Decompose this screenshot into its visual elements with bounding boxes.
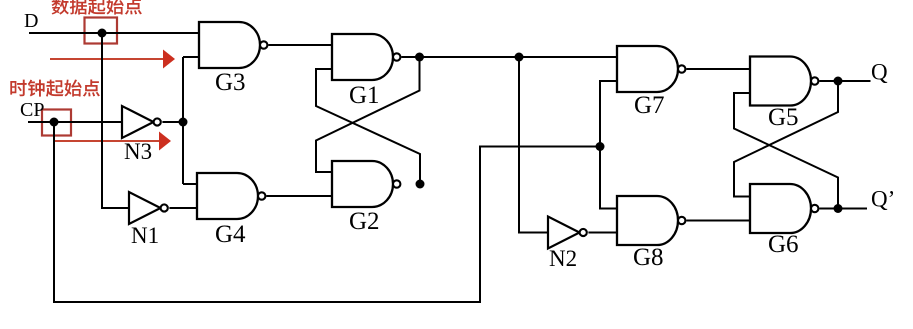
- wire CP net vertical to G7 and G8 inputs: [600, 81, 617, 209]
- wire cross-couple G1 out to G2 upper input: [316, 57, 420, 172]
- nand gate G5: [750, 57, 818, 106]
- junction N3 output node: [179, 118, 188, 127]
- svg-text:G1: G1: [349, 82, 380, 109]
- wire stub to G4 upper input: [183, 183, 197, 185]
- svg-text:G6: G6: [768, 231, 799, 258]
- svg-text:N1: N1: [131, 223, 159, 248]
- wire G1 output to G7 (S net): [401, 56, 617, 58]
- wire G3 output to G1 upper input: [268, 44, 332, 46]
- wire CP input line: [28, 121, 122, 123]
- svg-text:CP: CP: [20, 99, 44, 121]
- wire D junction down to N1 input: [102, 33, 129, 208]
- wire N3 output to junction: [162, 121, 183, 123]
- junction on CP line: [50, 118, 59, 127]
- svg-text:G2: G2: [349, 208, 380, 235]
- svg-text:G7: G7: [634, 92, 665, 119]
- svg-text:G3: G3: [215, 69, 246, 96]
- wire N1 output to G4 lower input: [169, 207, 197, 209]
- junction S-wire tap node: [515, 53, 524, 62]
- inverter N2: [548, 217, 587, 249]
- red annotation text: clock start point: [10, 80, 100, 97]
- wire cross-couple Q to G6 upper input: [734, 81, 838, 197]
- junction G2 output node: [416, 180, 425, 189]
- nand gate G4: [197, 173, 265, 219]
- junction CP net node: [596, 142, 605, 151]
- svg-text:Q’: Q’: [871, 187, 895, 212]
- wire N2 output to G8 lower input: [588, 232, 617, 234]
- wire Q-bar output: [819, 208, 867, 210]
- nand gate G7: [617, 46, 685, 92]
- svg-text:Q: Q: [871, 60, 888, 85]
- nand gate G1: [332, 34, 400, 80]
- nand gate G6: [750, 184, 818, 233]
- svg-text:G4: G4: [215, 221, 246, 248]
- svg-text:D: D: [24, 10, 38, 32]
- nand gate G2: [332, 161, 400, 207]
- red annotation box on D line: [85, 18, 118, 44]
- wire G8 output to G6 lower input: [686, 220, 750, 222]
- wire cross-couple G2 out to G1 lower input: [316, 69, 420, 184]
- nand gate G3: [199, 22, 267, 68]
- wire CP feedback bottom run: [54, 122, 600, 302]
- svg-text:G8: G8: [633, 244, 664, 271]
- nand gate G8: [617, 196, 685, 245]
- svg-text:N2: N2: [549, 246, 577, 271]
- wire S tap down to N2 input: [519, 57, 548, 233]
- junction Q-bar node: [834, 204, 843, 213]
- wire D input line: [29, 32, 199, 34]
- junction Q node: [834, 77, 843, 86]
- wire N3 node vertical bus: [182, 57, 184, 184]
- wire Q output: [819, 80, 870, 82]
- svg-text:N3: N3: [124, 139, 152, 164]
- inverter N3: [122, 106, 161, 138]
- red annotation text: data start point: [52, 0, 142, 15]
- wire G7 output to G5 upper input: [686, 68, 750, 70]
- junction on D line: [98, 29, 107, 38]
- wire cross-couple Q-bar to G5 lower input: [734, 93, 838, 209]
- red annotation box on CP line: [42, 110, 71, 136]
- junction G1 output node: [415, 53, 424, 62]
- wire G4 output to G2 lower input: [266, 195, 332, 197]
- red arrow on CP path: [54, 132, 171, 151]
- wire stub to G3 lower input: [183, 56, 199, 58]
- inverter N1: [129, 192, 168, 224]
- red arrow on D path: [50, 50, 175, 69]
- svg-text:G5: G5: [768, 104, 799, 131]
